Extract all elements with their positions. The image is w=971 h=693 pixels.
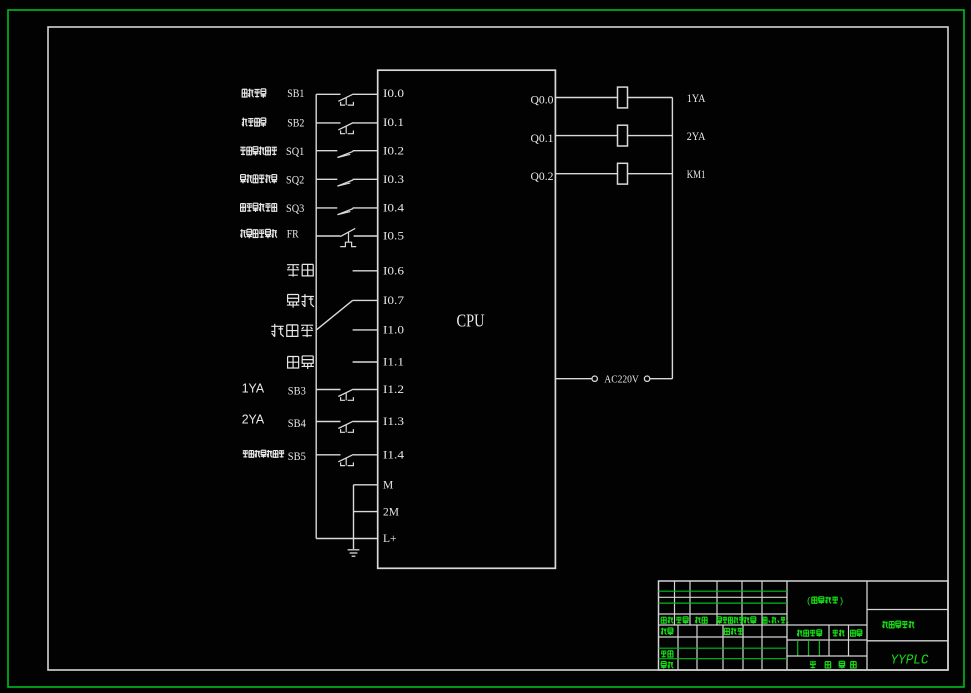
- wire L+ from bus: [316, 538, 378, 540]
- material mark cell label (cailiao biaoji): [806, 596, 844, 607]
- wire Q0.0 to coil: [555, 97, 617, 99]
- svg-text:I1.3: I1.3: [383, 416, 404, 428]
- AC supply wire right: [650, 378, 673, 380]
- output bus wire: [671, 98, 673, 379]
- label gongjin-kaishi-kaiguan (feed start switch): [240, 174, 277, 183]
- revision header row line: [659, 613, 788, 615]
- pushbutton SB3 wire I1.2: [316, 389, 378, 400]
- label danzhouqi (single cycle): [271, 324, 313, 337]
- relay coil 2YA: [618, 125, 628, 146]
- stage mark header cells line: [829, 625, 849, 656]
- wire stub I0.7 single-step: [353, 299, 378, 301]
- selector switch wiper wire: [316, 300, 352, 330]
- pushbutton operator: [345, 425, 347, 432]
- pushbutton SB4 wire I1.3: [316, 421, 378, 432]
- pushbutton operator: [345, 458, 347, 465]
- svg-text:L+: L+: [383, 533, 397, 545]
- svg-text:2YA: 2YA: [242, 412, 265, 426]
- label dianji-rejidianqi (motor thermal relay): [240, 229, 277, 238]
- label shenhe (review): [661, 651, 673, 658]
- revision table white rule line: [659, 596, 788, 598]
- pushbutton SB2 stop button wire I0.1: [316, 123, 378, 134]
- contact blade: [338, 209, 354, 215]
- relay coil KM1: [618, 163, 628, 184]
- contact blade: [338, 180, 354, 186]
- contact blade: [338, 151, 354, 157]
- M 2M ground branch wire: [353, 485, 355, 549]
- thermal relay contact FR wire I0.5: [316, 228, 378, 246]
- contact blade: [338, 123, 353, 130]
- svg-text:SB5: SB5: [288, 451, 306, 463]
- wire stub M: [354, 484, 378, 486]
- wire coil KM1 to output bus: [628, 173, 673, 175]
- limit switch SQ1 origin limit wire I0.2: [316, 151, 378, 158]
- svg-text:I0.6: I0.6: [383, 265, 404, 277]
- signature rows white line: [659, 636, 788, 638]
- svg-text:1YA: 1YA: [242, 382, 265, 396]
- contact blade: [338, 389, 353, 396]
- label lianxu (continuous): [288, 356, 314, 369]
- svg-text:1YA: 1YA: [687, 93, 706, 105]
- wire Q0.2 to coil: [555, 173, 617, 175]
- roller arrow: [338, 154, 351, 157]
- svg-text:I0.2: I0.2: [383, 145, 404, 157]
- label shoudong (manual): [287, 264, 313, 276]
- pushbutton operator: [345, 98, 347, 105]
- AC supply terminal circle right: [644, 376, 649, 381]
- relay coil 1YA: [618, 87, 628, 108]
- NC contact blade: [340, 228, 355, 236]
- title block main vertical dividers: [787, 581, 867, 670]
- stage mark sub-cells green ticks: [798, 641, 820, 656]
- svg-text:I1.4: I1.4: [383, 449, 404, 461]
- AC supply wire left: [555, 378, 591, 380]
- label zhongdian-xianwei-kaiguan (end limit switch): [241, 203, 277, 212]
- right column cell lines: [867, 610, 948, 641]
- svg-text:Q0.1: Q0.1: [531, 133, 554, 145]
- svg-text:I0.4: I0.4: [383, 203, 404, 215]
- pushbutton operator: [345, 126, 347, 133]
- svg-text:I0.5: I0.5: [383, 231, 404, 243]
- label jieduan-biaoji (stage mark): [797, 630, 822, 637]
- roller arrow: [338, 212, 351, 215]
- drawing name label waibu-jiexiantu (external wiring diagram): [882, 621, 914, 629]
- svg-text:AC220V: AC220V: [604, 374, 639, 386]
- pushbutton SB1 start button wire I0.0: [316, 94, 378, 105]
- wire stub I1.1 continuous: [353, 361, 378, 363]
- svg-text:I1.1: I1.1: [383, 357, 404, 369]
- signature rows green lines: [659, 648, 788, 659]
- svg-text:Q0.2: Q0.2: [531, 171, 554, 183]
- CPU block U1: [378, 70, 556, 568]
- pushbutton operator: [345, 393, 347, 400]
- header labels biaoji chushu fenqu gaigai-wenjianhao qianming nianyueri: [661, 617, 788, 624]
- svg-text:I0.0: I0.0: [383, 88, 404, 100]
- svg-text:Q0.0: Q0.0: [531, 95, 554, 107]
- label danbu (single step): [287, 294, 314, 307]
- wire stub 2M: [354, 511, 378, 513]
- wire coil 2YA to output bus: [628, 135, 673, 137]
- AC supply terminal circle left: [592, 376, 597, 381]
- svg-text:I0.1: I0.1: [383, 117, 404, 129]
- wire Q0.1 to coil: [555, 135, 617, 137]
- svg-text:I0.3: I0.3: [383, 174, 404, 186]
- svg-text:SB3: SB3: [288, 386, 306, 398]
- contact blade: [338, 421, 353, 428]
- label bili (scale): [851, 630, 863, 637]
- svg-text:CPU: CPU: [457, 310, 485, 330]
- wire stub I1.0 single-cycle: [353, 329, 378, 331]
- svg-text:I1.2: I1.2: [383, 384, 404, 396]
- ground symbol: [348, 550, 360, 556]
- svg-text:2YA: 2YA: [687, 131, 706, 143]
- label biaozhunhua (standardization): [724, 628, 743, 635]
- svg-text:KM1: KM1: [687, 169, 706, 181]
- limit switch SQ3 end limit wire I0.4: [316, 208, 378, 215]
- svg-text:SQ2: SQ2: [286, 174, 305, 186]
- header row bottom line: [659, 624, 868, 626]
- label gong zhang di zhang (sheet x of y): [810, 661, 856, 668]
- svg-text:I0.7: I0.7: [383, 295, 404, 307]
- svg-text:SB2: SB2: [287, 118, 304, 130]
- stage mark sub-row line: [787, 639, 867, 641]
- wire stub I0.6 manual: [353, 270, 378, 272]
- signature section column lines: [678, 625, 762, 670]
- svg-text:SB4: SB4: [288, 418, 306, 430]
- contact blade: [338, 454, 353, 461]
- left input bus wire: [315, 94, 317, 538]
- thermal element: [340, 242, 356, 246]
- label sheji (design): [661, 628, 673, 635]
- svg-text:2M: 2M: [383, 506, 399, 518]
- svg-text:YYPLC: YYPLC: [891, 654, 929, 669]
- contact blade: [338, 94, 353, 101]
- roller arrow: [338, 183, 351, 186]
- label yuandian-xianwei-kaiguan (origin limit switch): [240, 146, 277, 155]
- actuator stem: [348, 232, 350, 242]
- sheet row top line: [787, 655, 867, 657]
- svg-text:): ): [839, 596, 845, 607]
- revision table column lines: [675, 581, 763, 625]
- svg-text:SQ1: SQ1: [286, 146, 305, 158]
- wire coil 1YA to output bus: [628, 97, 673, 99]
- label zhongliang (weight): [833, 630, 845, 637]
- revision table green rule lines: [659, 591, 788, 603]
- title block outer frame: [659, 581, 949, 670]
- svg-text:M: M: [383, 480, 393, 492]
- svg-text:I1.0: I1.0: [383, 324, 404, 336]
- svg-text:SB1: SB1: [287, 88, 304, 100]
- svg-text:SQ3: SQ3: [286, 203, 305, 215]
- label qidong-anniu (start button): [242, 89, 266, 98]
- pushbutton SB5 motor start wire I1.4: [316, 454, 378, 465]
- svg-text:FR: FR: [287, 229, 299, 241]
- label dianji-qidong-zhudianlu (motor start main circuit): [243, 450, 284, 458]
- limit switch SQ2 work-feed start wire I0.3: [316, 179, 378, 186]
- label gongyi (process): [661, 661, 673, 668]
- svg-text:(: (: [806, 596, 812, 607]
- label tingzhi-anniu (stop button): [242, 118, 266, 127]
